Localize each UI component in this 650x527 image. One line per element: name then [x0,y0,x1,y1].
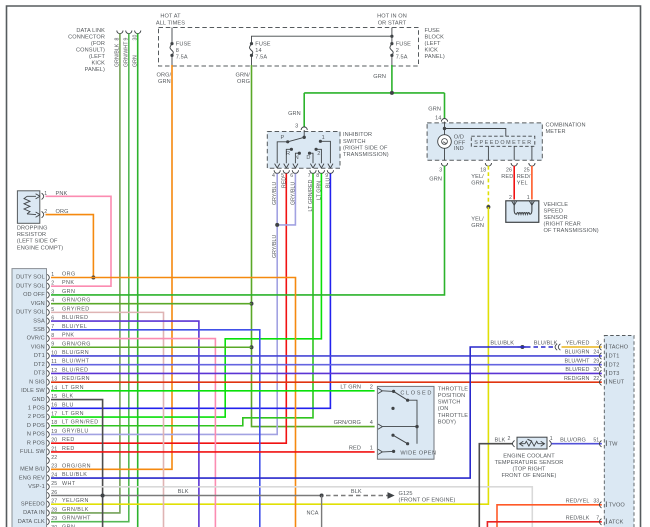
node GRN/ORG at ECU pin 9 row [250,345,254,349]
svg-text:GRN/WHT: GRN/WHT [62,516,91,522]
svg-text:2: 2 [317,151,320,157]
svg-text:BLU/RED: BLU/RED [62,367,89,373]
wire GRN to combination meter pin 14 [444,93,446,119]
svg-text:7: 7 [596,516,599,522]
svg-text:RED: RED [62,446,75,452]
fuse 2 [390,41,411,60]
label RED/YEL meter pin 25 [517,174,531,187]
VSS pin 2 [509,195,517,206]
ECU pin 4 VIGN [31,298,91,307]
svg-text:29: 29 [593,358,599,364]
wire GRN to inhibitor switch pin 3 [303,93,305,128]
data link connector label [68,28,105,73]
svg-text:METER: METER [546,129,566,135]
svg-text:FUSE: FUSE [255,41,270,47]
ECU pin 7 SSB [33,324,87,333]
svg-text:22: 22 [51,455,57,461]
svg-text:BLK: BLK [62,394,74,400]
svg-text:SPEEDOMETER: SPEEDOMETER [474,140,532,146]
svg-text:RED/GRN: RED/GRN [62,376,90,382]
meter pin 14 connector [428,107,447,122]
svg-text:(RIGHT SIDE OF: (RIGHT SIDE OF [343,145,388,151]
svg-text:BLU/GRN: BLU/GRN [62,350,89,356]
svg-text:LT GRN: LT GRN [62,411,84,417]
wire LT GRN/RED inhibitor pin 7 to ECU pin 18 [51,174,313,426]
svg-text:KICK: KICK [425,48,439,54]
ECU pin 12 DT3 [34,367,89,376]
TPS pin 2 [340,385,382,394]
ECT sensor label [495,454,564,480]
wire BLU/GRN ECU pin 10 to DT1 [51,355,602,357]
svg-text:G125: G125 [399,491,413,497]
svg-text:ATCK: ATCK [609,519,624,525]
ECU pin 30 spare [47,524,75,527]
svg-text:GRN/ORG: GRN/ORG [62,298,91,304]
svg-text:1: 1 [370,445,373,451]
speedometer sub-box [471,136,535,146]
svg-text:N SIG: N SIG [29,379,45,385]
svg-text:18: 18 [480,168,486,174]
svg-text:BLU/WHT: BLU/WHT [565,358,591,364]
svg-text:2: 2 [508,436,511,442]
svg-text:NCA: NCA [307,511,319,517]
svg-text:GRN/: GRN/ [236,73,251,79]
throttle position switch box [377,386,434,459]
wire BLK dashed to G125 [326,495,388,497]
inhibitor switch box [267,132,340,169]
svg-text:GRN: GRN [62,289,75,295]
svg-text:KICK: KICK [92,61,106,67]
svg-text:28: 28 [51,507,57,513]
svg-text:R: R [286,151,290,157]
label YEL/GRN meter pin 18 [471,174,484,187]
inhibitor contact D [306,152,315,168]
inhibitor contact R [284,148,293,168]
svg-text:16: 16 [51,403,57,409]
node GRN junction [390,91,394,95]
svg-text:2 POS: 2 POS [28,414,45,420]
svg-text:GRY/RED: GRY/RED [62,306,90,312]
svg-text:YEL/GRN: YEL/GRN [62,498,89,504]
svg-text:DT2: DT2 [34,362,45,368]
svg-text:OR START: OR START [378,21,407,27]
wire BLU/RED ECU pin 6 SSA [51,321,199,527]
inhibitor blade to P contact [288,137,305,142]
svg-text:GRN: GRN [373,74,386,80]
ground G125 arrow [388,493,394,498]
svg-text:26: 26 [506,168,512,174]
svg-text:1: 1 [550,436,553,442]
svg-text:(LEFT: (LEFT [89,54,106,60]
svg-text:TRANSMISSION): TRANSMISSION) [343,152,389,158]
ECU pin 22 spare [47,455,57,464]
svg-text:7.5A: 7.5A [396,54,408,60]
wire GRN/ORG ECU pin 4 [51,303,252,305]
svg-text:RED: RED [62,437,75,443]
svg-text:DROPPING: DROPPING [17,226,48,232]
wire GRY/BLU inhibitor pin 6 merge [277,174,295,225]
svg-text:27: 27 [51,499,57,505]
svg-text:25: 25 [524,168,530,174]
svg-text:ORG: ORG [62,272,76,278]
ECU pin 10 DT1 [34,350,89,359]
svg-text:BLU/WHT: BLU/WHT [62,359,90,365]
svg-text:COMBINATION: COMBINATION [546,123,586,129]
dropping resistor pin 1 [36,191,48,200]
wire GRN meter pin 3 to ECU pin 3 [51,166,445,295]
ECU pin 11 DT2 [34,359,90,368]
svg-text:LT GRN: LT GRN [62,385,84,391]
svg-text:7.5A: 7.5A [255,54,267,60]
TPS wide open contact [391,434,409,446]
ECU pin 23 MEM B/U [20,463,91,472]
fuse 2 feed wire [391,28,393,44]
meter internal node [443,127,446,130]
svg-text:ENGINE COOLANT: ENGINE COOLANT [503,454,555,460]
inhibitor contact 1 [319,135,333,168]
svg-text:GND: GND [32,397,45,403]
svg-text:3: 3 [596,341,599,347]
combination meter box [427,123,542,160]
svg-text:ENGINE COMPT): ENGINE COMPT) [17,245,63,251]
data link connector pin 8 [115,31,123,68]
fuse 14 [249,41,270,60]
TPS pin 1 [349,445,395,454]
wire RED/YEL to TVOO [497,505,602,527]
ECU pin 21 FULL SW [20,446,75,455]
fuse block dashed box [159,28,419,67]
svg-text:YEL/RED: YEL/RED [566,341,590,347]
label FUSE BLOCK (LEFT KICK PANEL) [425,28,445,60]
ECU pin 13 N SIG [29,376,90,385]
ECU pin 5 DUTY SOL [16,306,90,315]
svg-text:8: 8 [176,48,179,54]
svg-text:RED: RED [501,174,513,180]
fuse 8 feed wire [171,28,173,44]
data link connector pin 30 [133,31,141,68]
wire GRN data link pin 30 to ECU pin 30 [137,34,139,527]
svg-text:20: 20 [51,438,57,444]
svg-text:CLOSED: CLOSED [400,390,433,396]
svg-text:GRN: GRN [288,111,301,117]
TCM connector box [604,336,634,527]
ECU pin 26 spare [47,490,57,499]
ECU pin 16 1 POS [28,402,74,411]
svg-text:1 POS: 1 POS [28,406,45,412]
label YEL/GRN below splice [471,217,484,230]
svg-text:GRN/ORG: GRN/ORG [62,341,91,347]
svg-text:GRN/ORG: GRN/ORG [334,420,361,426]
svg-text:R POS: R POS [27,440,45,446]
wire BLU/BLK ECU pin 24 ENG REV to tacho [51,347,518,478]
svg-text:BLU: BLU [62,402,74,408]
svg-text:SSA: SSA [33,318,45,324]
svg-text:N POS: N POS [27,432,45,438]
svg-text:18: 18 [51,420,57,426]
inhibitor switch label [343,132,389,158]
svg-text:3: 3 [51,289,54,295]
fuse 8 output stub [171,55,173,66]
label G125 [399,491,456,504]
svg-text:2: 2 [370,385,373,391]
svg-text:PANEL): PANEL) [425,54,445,60]
label HOT IN ON OR START [377,14,407,27]
TCM pin 33 TVOO [566,499,626,509]
svg-text:DATA LINK: DATA LINK [76,28,105,34]
svg-text:(LEFT SIDE OF: (LEFT SIDE OF [17,239,58,245]
svg-text:17: 17 [51,411,57,417]
data link connector pin 9 [124,31,132,68]
svg-text:DUTY SOL: DUTY SOL [16,310,45,316]
svg-text:ORG/GRN: ORG/GRN [62,463,91,469]
wire BLK ECU pin 26 ground lead [51,495,322,497]
svg-text:BLU/RED: BLU/RED [565,367,589,373]
O/D OFF IND label [454,135,466,152]
svg-text:DT3: DT3 [609,371,620,377]
node BLU/BLK splice [520,345,524,349]
svg-text:TW: TW [609,441,619,447]
wire BLU/ORG to TW [552,443,602,445]
svg-text:OF TRANSMISSION): OF TRANSMISSION) [544,228,599,234]
svg-text:(FRONT OF ENGINE): (FRONT OF ENGINE) [399,498,456,504]
svg-text:DT1: DT1 [34,353,45,359]
TCM pin 29 DT2 [565,358,620,368]
combination meter label [546,123,586,136]
svg-text:WIDE OPEN: WIDE OPEN [400,451,436,457]
svg-text:2: 2 [396,48,399,54]
TPS label [438,386,468,425]
dropping resistor box [17,191,39,224]
fuse 8 [170,41,191,60]
svg-text:GRN: GRN [471,181,484,187]
svg-text:(RIGHT REAR: (RIGHT REAR [544,222,581,228]
svg-text:SPEEDO: SPEEDO [21,501,45,507]
svg-text:19: 19 [51,429,57,435]
wire PNK ECU pin 8 OVR/C [51,339,215,527]
ECU pin 17 2 POS [28,411,84,420]
node GRY/BLU merge [275,223,279,227]
TCM pin 30 DT3 [565,367,619,377]
vehicle speed sensor box [506,201,539,223]
svg-text:4: 4 [370,420,373,426]
svg-text:GRN: GRN [429,177,442,183]
wire GRN/ORG fuse 14 to ECU pins 4,9 and TPS pin 4 [252,65,375,427]
wire GRN/BLK data link pin 8 to ECU pin 28 [51,34,120,513]
wire PNK dropping resistor to ECU pin 2 [46,196,112,286]
svg-text:D POS: D POS [27,423,45,429]
svg-text:(TOP RIGHT: (TOP RIGHT [512,467,546,473]
svg-text:FRONT OF ENGINE): FRONT OF ENGINE) [502,473,557,479]
wire YEL/RED to tacho pin 3 [562,346,602,348]
ECU pin 19 N POS [27,428,89,437]
wire RED/YEL meter pin 25 to speed sensor pin 1 [531,166,533,200]
svg-text:VSP-1: VSP-1 [28,484,45,490]
svg-text:RED/GRN: RED/GRN [564,376,590,382]
svg-text:DT2: DT2 [609,362,620,368]
svg-text:2: 2 [509,195,512,201]
TPS pin 4 common [334,420,419,429]
svg-text:RED/: RED/ [517,174,531,180]
svg-text:ALL TIMES: ALL TIMES [156,21,185,27]
speedometer pin stubs [487,146,489,160]
svg-text:30: 30 [593,367,599,373]
meter internal wire to speedometer [445,129,506,137]
svg-text:SSB: SSB [33,327,45,333]
node BLK at GND join [101,494,105,498]
svg-text:VIGN: VIGN [31,301,45,307]
ECU pin 8 OVR/C [27,333,75,342]
svg-text:RED/BLK: RED/BLK [566,516,590,522]
meter bottom pin connectors [439,163,535,174]
svg-text:(FOR: (FOR [91,41,105,47]
dropping resistor element [24,196,36,214]
svg-text:GRN/BLK: GRN/BLK [62,507,89,513]
wire BLU inhibitor pin 9 to ECU pin 16 [51,174,330,409]
svg-text:HOT AT: HOT AT [160,14,181,20]
svg-text:33: 33 [593,499,599,505]
TCM pin 7 ATCK [566,516,624,526]
wire YEL/GRN to ECU pin 27 [51,207,488,504]
VSS label [544,202,599,234]
svg-text:PANEL): PANEL) [85,67,105,73]
fuse 2 output stub [391,55,393,66]
svg-text:DT1: DT1 [609,354,620,360]
svg-text:OVR/C: OVR/C [27,336,45,342]
svg-text:DATA IN: DATA IN [23,510,45,516]
ECU pin 2 DUTY SOL [16,280,74,289]
inhibitor pins 4-9 connectors [272,170,334,179]
svg-text:BLU/YEL: BLU/YEL [62,324,87,330]
svg-text:GRN: GRN [158,79,171,85]
svg-text:1: 1 [322,135,325,141]
svg-text:1: 1 [527,195,530,201]
svg-text:ORG: ORG [237,79,250,85]
svg-text:NEUT: NEUT [609,380,625,386]
node YEL/GRN splice [486,205,490,209]
svg-text:CONNECTOR: CONNECTOR [68,35,105,41]
wire RED ECU pin 21 to TPS pin 1 [51,451,375,453]
inhibitor pin 3 connector [288,111,307,130]
svg-text:23: 23 [51,464,57,470]
svg-text:IND: IND [454,146,464,152]
svg-text:PNK: PNK [62,333,74,339]
ECU pin 9 VIGN [31,341,91,350]
ECU pin 28 DATA IN [23,507,89,516]
ECU pin 18 D POS [27,420,99,429]
label HOT AT ALL TIMES [156,14,185,27]
TPS closed contact [382,390,417,444]
svg-text:YEL/: YEL/ [471,174,484,180]
svg-text:OD OFF: OD OFF [23,292,45,298]
fuse 14 feed bus from fuse 2 [252,36,392,43]
svg-text:SENSOR: SENSOR [544,215,568,221]
svg-text:3: 3 [439,168,442,174]
wire GRN junction bus to inhibitor and meter [304,92,444,94]
svg-text:YEL: YEL [517,181,528,187]
svg-text:14: 14 [435,115,441,121]
ECU pin 29 DATA CLK [18,516,91,525]
wire LT GRN ECU pin 14 to TPS pin 2 [51,390,375,392]
ECU pin 6 SSA [33,315,88,324]
svg-text:GRY/BLU: GRY/BLU [62,428,89,434]
node BLK branch [320,494,324,498]
svg-text:BLU/RED: BLU/RED [62,315,89,321]
svg-text:D: D [306,155,310,161]
svg-text:3: 3 [295,123,298,129]
svg-text:51: 51 [593,437,599,443]
wire BLK branch down [321,496,323,527]
svg-text:BODY): BODY) [438,419,456,425]
svg-text:DT3: DT3 [34,371,45,377]
node fuse2 bus junction [390,35,393,38]
svg-text:BLK: BLK [178,489,189,495]
svg-text:7.5A: 7.5A [176,54,188,60]
ECU pin 24 ENG REV [19,472,87,481]
svg-text:DUTY SOL: DUTY SOL [16,275,45,281]
svg-text:FUSE: FUSE [425,28,440,34]
svg-text:N: N [295,155,299,161]
wire BLU/WHT ECU pin 11 to DT2 [51,364,602,366]
svg-text:RESISTOR: RESISTOR [17,232,46,238]
svg-text:IDLE SW: IDLE SW [21,388,45,394]
svg-text:BLU/BLK: BLU/BLK [62,472,87,478]
svg-text:TACHO: TACHO [609,345,629,351]
svg-text:LT GRN/RED: LT GRN/RED [62,420,99,426]
ECU pin 20 R POS [27,437,75,446]
svg-text:FUSE: FUSE [396,41,411,47]
svg-text:POSITION: POSITION [438,393,466,399]
svg-text:DATA CLK: DATA CLK [18,519,45,525]
inhibitor common node [303,136,306,139]
wire WHT ECU pin 25 VSP-1 [51,487,532,527]
svg-text:BLU/BLK: BLU/BLK [490,341,514,347]
svg-text:BLK: BLK [495,438,506,444]
svg-text:6: 6 [290,173,293,179]
svg-text:SWITCH: SWITCH [343,139,366,145]
VSS coil [514,202,532,215]
inhibitor contact N [293,152,301,168]
svg-text:MEM B/U: MEM B/U [20,467,45,473]
wire ORG/GRN fuse 8 to ECU pin 23 [51,65,172,469]
svg-text:2: 2 [51,281,54,287]
wire RED inhibitor pin 5 to ECU pin 20 [51,174,286,444]
ECU pin 25 VSP-1 [28,481,76,490]
svg-text:22: 22 [593,376,599,382]
TCM pin 3 TACHO [566,341,629,351]
svg-text:8: 8 [316,173,319,179]
O/D OFF indicator bulb [438,129,452,161]
ECU pin 27 SPEEDO [21,498,89,507]
svg-text:VIGN: VIGN [31,344,45,350]
svg-text:TVOO: TVOO [609,502,626,508]
dropping resistor pin 2 [36,209,48,218]
svg-text:VEHICLE: VEHICLE [544,202,569,208]
svg-text:BLU/BLK: BLU/BLK [534,341,558,347]
wire BLK ECU pin 15 GND [51,400,103,527]
svg-text:29: 29 [51,516,57,522]
svg-text:ORG/: ORG/ [157,73,172,79]
svg-text:(LEFT: (LEFT [425,41,442,47]
wire ORG ECU pin 1 duty sol [51,278,296,527]
svg-text:14: 14 [255,48,261,54]
fuse 14 output stub [251,55,253,66]
svg-text:THROTTLE: THROTTLE [438,386,468,392]
wire GRN/WHT data link pin 9 to ECU pin 29 [51,34,129,522]
VSS pin 1 [527,195,535,206]
TCM pin 51 TW [593,437,618,447]
svg-text:BLU/ORG: BLU/ORG [560,438,586,444]
svg-text:7: 7 [308,173,311,179]
